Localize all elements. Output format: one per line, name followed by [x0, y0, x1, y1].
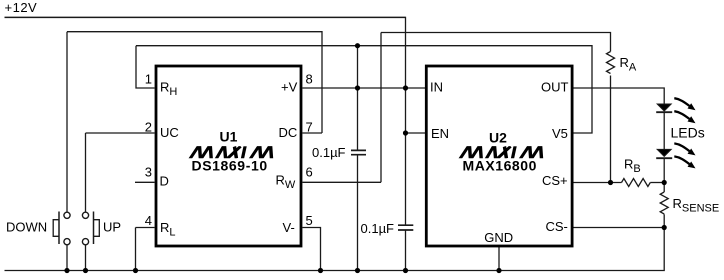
svg-text:RA: RA: [620, 55, 637, 74]
svg-text:+12V: +12V: [5, 0, 38, 15]
svg-text:CS-: CS-: [546, 219, 568, 234]
svg-text:5: 5: [306, 213, 313, 228]
svg-text:7: 7: [306, 119, 313, 134]
svg-text:OUT: OUT: [541, 80, 569, 95]
svg-text:RSENSE: RSENSE: [673, 196, 720, 215]
svg-text:D: D: [160, 174, 169, 189]
svg-text:0.1µF: 0.1µF: [312, 145, 346, 160]
svg-text:+V: +V: [281, 80, 298, 95]
svg-text:0.1µF: 0.1µF: [361, 221, 395, 236]
svg-text:U2: U2: [489, 130, 507, 146]
svg-text:6: 6: [306, 165, 313, 180]
svg-text:LEDs: LEDs: [671, 125, 705, 141]
svg-text:UC: UC: [160, 125, 179, 140]
svg-text:DS1869-10: DS1869-10: [192, 157, 268, 173]
svg-text:8: 8: [306, 72, 313, 87]
svg-text:CS+: CS+: [542, 173, 568, 188]
svg-text:V-: V-: [283, 220, 295, 235]
svg-text:U1: U1: [220, 129, 238, 145]
svg-text:2: 2: [145, 119, 152, 134]
svg-text:3: 3: [145, 165, 152, 180]
svg-text:DOWN: DOWN: [6, 219, 47, 234]
svg-text:GND: GND: [484, 230, 513, 245]
svg-text:MAX16800: MAX16800: [463, 157, 537, 173]
svg-text:V5: V5: [552, 126, 568, 141]
svg-text:1: 1: [145, 72, 152, 87]
svg-text:4: 4: [145, 213, 152, 228]
svg-text:EN: EN: [431, 126, 449, 141]
svg-text:RB: RB: [624, 157, 641, 176]
svg-text:IN: IN: [430, 80, 443, 95]
svg-text:UP: UP: [103, 219, 121, 234]
svg-text:DC: DC: [279, 125, 298, 140]
